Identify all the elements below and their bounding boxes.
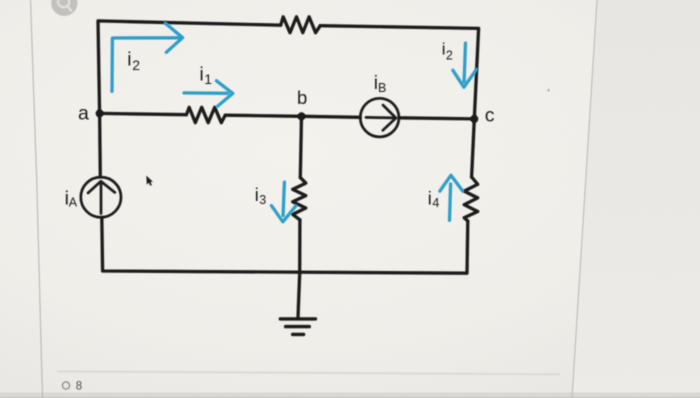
node b (junction dot) <box>298 112 306 120</box>
svg-text:B: B <box>378 81 386 95</box>
resistor R4 (right branch) <box>464 177 478 221</box>
wire: R1 to node b <box>225 115 301 116</box>
svg-text:4: 4 <box>432 196 439 210</box>
right page edge line <box>572 0 597 398</box>
magnifier button (top-left, cut off) <box>51 0 77 16</box>
bottom gray strip <box>0 393 700 398</box>
svg-text:i: i <box>200 65 204 86</box>
svg-text:2: 2 <box>446 49 453 63</box>
svg-text:A: A <box>69 196 78 210</box>
wire: node b down to resistor R3 <box>300 116 301 177</box>
dust speck <box>547 89 549 91</box>
current arrow i4 (upward) <box>450 184 451 220</box>
current arrow i2 (top-right, downward) <box>464 43 465 81</box>
wire: junction down to ground <box>298 273 300 317</box>
resistor R1 (between a and b) <box>186 107 225 122</box>
svg-text:i: i <box>255 185 259 205</box>
node a (junction dot) <box>96 109 104 117</box>
svg-text:1: 1 <box>204 71 212 87</box>
current arrow i1 <box>184 91 228 95</box>
wire: node b to current source iB <box>302 116 361 117</box>
svg-text:b: b <box>297 87 307 108</box>
resistor R3 (middle branch) <box>293 178 306 220</box>
current source iB <box>360 98 399 137</box>
svg-text:c: c <box>485 105 495 127</box>
current source iA <box>81 177 121 217</box>
svg-text:2: 2 <box>132 57 140 73</box>
wire: R3 to bottom wire junction <box>298 220 301 273</box>
svg-text:i: i <box>127 50 131 71</box>
wire: node a up to top-left corner and across to top resistor <box>98 21 281 114</box>
svg-text:8: 8 <box>76 381 82 393</box>
svg-text:a: a <box>78 102 89 124</box>
node c (junction dot) <box>470 115 478 123</box>
mouse cursor <box>146 176 153 186</box>
wire: iB to node c <box>399 118 474 119</box>
wire: iA top to node a <box>98 113 102 177</box>
svg-text:3: 3 <box>259 193 266 207</box>
ground symbol <box>280 319 315 335</box>
radio option circle <box>62 382 69 389</box>
wire: R4 bottom, bottom side, up-left side to current source iA <box>102 217 468 273</box>
wire: top resistor to top-right corner down to node c <box>320 26 478 119</box>
svg-text:i: i <box>428 188 432 208</box>
wire: node c down to resistor R4 <box>472 119 475 177</box>
current arrow i3 (downward) <box>283 182 284 215</box>
right page area (beyond right edge line) <box>572 0 700 398</box>
resistor R-top (in top wire) <box>281 17 321 33</box>
blue current arrows <box>112 23 477 222</box>
current arrow i2 (L-shaped, top-left) <box>112 38 180 92</box>
wire: node a to resistor R1 <box>100 113 187 114</box>
separator line above answer row <box>57 371 560 374</box>
left panel edge line <box>31 0 43 398</box>
